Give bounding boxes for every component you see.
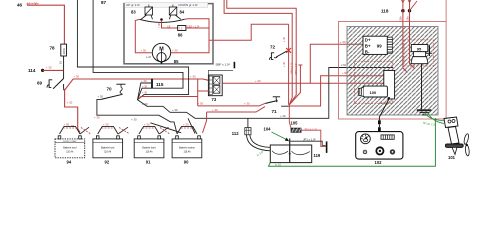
svg-text:Batterie bord: Batterie bord [101, 146, 115, 149]
svg-text:87: 87 [101, 0, 107, 5]
svg-text:7.5: 7.5 [179, 26, 183, 30]
svg-text:+ 30: + 30 [142, 85, 148, 89]
svg-text:105: 105 [291, 121, 299, 126]
wire fuse 86 to vertical 209 [186, 27, 209, 29]
svg-text:83: 83 [131, 10, 136, 15]
alternator 99 [363, 36, 387, 54]
rocker arc [139, 19, 184, 22]
svg-text:+ 30: + 30 [141, 79, 147, 83]
svg-text:+ 30: + 30 [144, 122, 150, 126]
starter 95 [411, 45, 428, 52]
svg-text:101: 101 [448, 155, 456, 160]
gap crossings black [80, 127, 169, 134]
battery posts [58, 136, 200, 139]
fuse 78 [61, 44, 67, 56]
svg-text:+ 30: + 30 [142, 102, 148, 106]
svg-text:B-: B- [365, 49, 370, 54]
svg-text:SBF x 1.0²: SBF x 1.0² [216, 62, 230, 66]
svg-text:72: 72 [270, 44, 276, 49]
svg-text:+ 30: + 30 [282, 36, 286, 42]
svg-text:95: 95 [417, 47, 422, 52]
svg-text:+ 30: + 30 [340, 40, 346, 44]
svg-text:91: 91 [146, 160, 151, 165]
svg-text:73: 73 [212, 97, 217, 102]
svg-text:+ 30: + 30 [244, 102, 250, 106]
wire vertical 93 [93, 0, 183, 100]
svg-text:+ 30: + 30 [142, 91, 148, 95]
outboard motor 101 [444, 117, 463, 147]
wire fuse to switch 69 [63, 56, 65, 79]
svg-text:118a: 118a [405, 16, 409, 22]
connector 73 [208, 75, 222, 96]
svg-text:JP1 x 1.0²: JP1 x 1.0² [303, 137, 316, 141]
control panel 102 [356, 132, 403, 160]
motor 85 [152, 43, 170, 61]
svg-text:+ 30: + 30 [67, 101, 73, 105]
svg-text:114: 114 [28, 68, 36, 73]
switch 72 wire down to junction [288, 24, 290, 105]
svg-text:+ 30: + 30 [74, 74, 80, 78]
svg-text:Batterie bord: Batterie bord [142, 146, 156, 149]
svg-text:+ 30: + 30 [255, 79, 261, 83]
svg-text:DC/DC CONV: DC/DC CONV [63, 141, 77, 143]
engine compartment red dashed border [339, 22, 447, 120]
wire from 46 to fuse 78 [27, 5, 64, 44]
svg-text:+ 30: + 30 [172, 108, 178, 112]
svg-text:118: 118 [381, 8, 389, 13]
svg-text:r 30: r 30 [157, 22, 161, 27]
red dashed links [63, 128, 193, 134]
svg-text:110 Ah: 110 Ah [104, 151, 112, 154]
svg-text:+ 30: + 30 [280, 114, 286, 118]
tank 119 [270, 145, 311, 163]
118 wires down into engine [403, 0, 408, 73]
engine ground [421, 64, 423, 110]
battery 92 [93, 139, 123, 165]
svg-text:UP gr 1.0²: UP gr 1.0² [126, 3, 140, 7]
svg-text:JR1 b 1.0²: JR1 b 1.0² [304, 128, 317, 132]
svg-text:V6M r 2.5²: V6M r 2.5² [294, 63, 298, 75]
black bus from fan to alternator B- [138, 68, 394, 119]
battery 94 [55, 139, 85, 165]
svg-text:115: 115 [156, 82, 164, 87]
svg-text:112: 112 [232, 131, 239, 136]
sensor 104 stem / tank divider [289, 139, 291, 163]
wire 73 out to alternator B+ [222, 44, 384, 83]
svg-text:+ 30: + 30 [64, 122, 70, 126]
junction to engine: red main [289, 76, 384, 106]
svg-text:115 Ah: 115 Ah [184, 151, 192, 154]
svg-text:DOWN gr 1.0²: DOWN gr 1.0² [179, 3, 198, 7]
svg-text:94: 94 [67, 160, 72, 165]
svg-text:102: 102 [375, 160, 383, 165]
svg-text:B+: B+ [365, 44, 371, 49]
svg-text:+ 30: + 30 [198, 102, 204, 106]
battery link humps (trapezoid bridges) [60, 126, 198, 134]
wire 209 T-branch to switch 72 [209, 24, 289, 40]
svg-text:84: 84 [180, 10, 185, 15]
svg-text:D+: D+ [365, 38, 371, 43]
svg-text:104: 104 [264, 126, 272, 131]
black diag to battery 90 left [150, 123, 181, 133]
svg-text:+ 30: + 30 [190, 75, 196, 79]
svg-text:+ 30: + 30 [183, 122, 189, 126]
svg-text:100: 100 [370, 90, 377, 95]
svg-text:a 30: a 30 [146, 55, 152, 59]
wire top off-page pair to right verticals [224, 0, 292, 105]
control box 87 [124, 4, 213, 64]
svg-text:+ 30: + 30 [212, 108, 218, 112]
svg-text:Batterie moteur: Batterie moteur [179, 146, 195, 149]
battery 91 [134, 139, 164, 165]
svg-text:85: 85 [174, 59, 179, 64]
wire fuse 105 to bonding bar [301, 130, 326, 146]
engine 100: column + body [384, 70, 395, 99]
svg-text:119: 119 [314, 153, 321, 158]
wire 69 down to battery 94 [64, 89, 80, 133]
svg-text:86: 86 [178, 33, 183, 38]
red line y106 from 73 area to junction [198, 103, 266, 106]
svg-text:100A: 100A [62, 48, 66, 55]
svg-text:+ 30: + 30 [98, 95, 104, 99]
wire fan to 73 pin2 vertical [138, 97, 198, 100]
svg-text:90: 90 [184, 160, 189, 165]
svg-text:+ 30: + 30 [282, 61, 286, 67]
wire arc center to fuse 86 [162, 20, 178, 28]
svg-text:92: 92 [105, 160, 110, 165]
terminal 115 [138, 83, 152, 100]
svg-text:+ 30: + 30 [131, 118, 137, 122]
wire arc right to vertical 209 [171, 19, 209, 53]
green wiring [269, 118, 436, 166]
svg-text:+ 30: + 30 [103, 122, 109, 126]
engine 100 red dashed enclosure [355, 62, 393, 104]
svg-text:+ 50: + 50 [342, 71, 348, 75]
black to conduit 112 [247, 118, 249, 127]
svg-text:+ 30: + 30 [141, 48, 147, 52]
svg-text:99: 99 [377, 44, 382, 49]
svg-text:+ 30: + 30 [46, 66, 52, 70]
svg-text:110 Ah: 110 Ah [146, 151, 154, 154]
svg-text:C8: C8 [167, 24, 171, 28]
starter 95 red dashed enclosure [404, 40, 433, 66]
wire junction 69 to main red bus y79 [65, 79, 209, 90]
fuse 86 [178, 26, 186, 31]
green to outboard [425, 113, 444, 121]
battery 90 [172, 139, 202, 165]
svg-text:46: 46 [17, 3, 23, 8]
engine stem to panel plug [379, 99, 388, 120]
svg-text:a 50: a 50 [341, 63, 347, 67]
engine hatch box [347, 27, 438, 116]
svg-text:A62 gr 1.0²: A62 gr 1.0² [379, 101, 392, 105]
svg-text:78: 78 [50, 45, 56, 50]
svg-text:V64 r 1.0²: V64 r 1.0² [290, 62, 294, 74]
svg-text:118b: 118b [399, 16, 403, 22]
wire 114 to fuse bottom [43, 69, 64, 71]
svg-text:70: 70 [107, 87, 113, 92]
svg-text:+ 30: + 30 [94, 116, 100, 120]
wire 70 left loop down [97, 99, 177, 133]
svg-text:110 Ah: 110 Ah [66, 151, 74, 154]
wire arc left to motor left [135, 19, 152, 52]
wire 73 pin2 [198, 79, 209, 106]
svg-text:Batterie bord: Batterie bord [63, 146, 77, 149]
svg-text:+ 30: + 30 [172, 48, 178, 52]
svg-text:lv 16: lv 16 [275, 162, 281, 166]
black diag to battery 90 right [188, 118, 195, 133]
svg-text:69: 69 [37, 81, 43, 86]
svg-text:71: 71 [272, 109, 278, 114]
red down to fuse 105 [289, 106, 291, 129]
wire vertical 77 [77, 0, 188, 100]
